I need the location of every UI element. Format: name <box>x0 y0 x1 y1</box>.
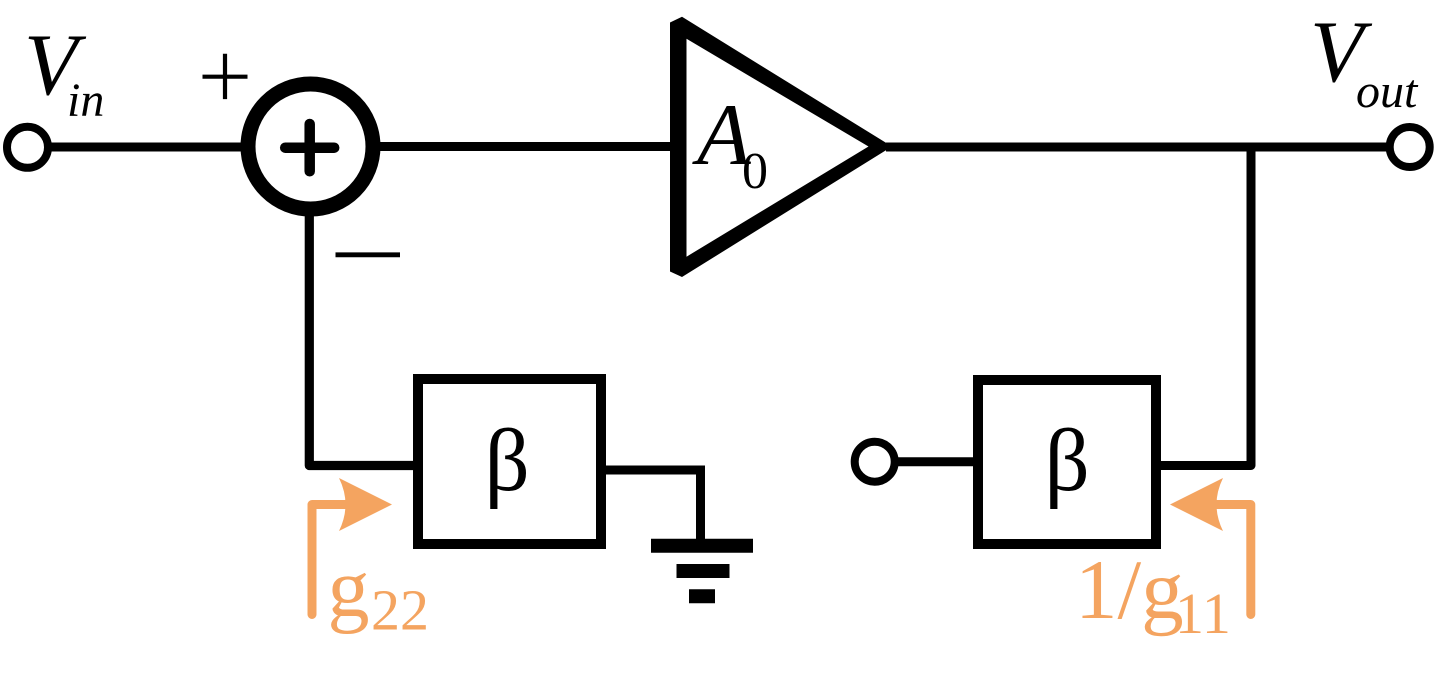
plus inside summing junction <box>285 124 334 171</box>
svg-text:in: in <box>67 74 104 127</box>
wire: left beta box to ground <box>605 470 701 541</box>
svg-text:1/g: 1/g <box>1075 543 1184 637</box>
svg-text:β: β <box>485 412 530 510</box>
svg-text:β: β <box>1045 412 1090 510</box>
minus sign label below summing junction <box>336 252 401 257</box>
feedback block beta (left) <box>418 379 601 544</box>
wire: summing junction to amplifier <box>373 142 672 151</box>
input terminal of right beta box <box>855 442 895 482</box>
wire: summing junction down and into left beta box <box>309 209 414 466</box>
ground <box>651 546 753 597</box>
svg-text:g: g <box>328 542 370 635</box>
output terminal <box>1390 127 1430 167</box>
op-amp A0 triangle <box>670 17 892 277</box>
wire: input terminal to summing junction <box>45 143 244 152</box>
feedback block beta (right) <box>978 380 1156 544</box>
wire: terminal to right beta box <box>894 457 975 466</box>
svg-text:out: out <box>1356 65 1419 118</box>
wire: right beta box up to output node <box>1160 150 1251 466</box>
wire: amplifier output to output terminal <box>886 143 1392 152</box>
svg-text:22: 22 <box>371 577 429 642</box>
summing junction U1 <box>248 84 373 209</box>
svg-text:11: 11 <box>1175 581 1231 646</box>
orange arrow 1/g11 <box>1214 505 1251 615</box>
plus sign label above summing junction <box>203 54 248 99</box>
svg-text:0: 0 <box>742 143 768 200</box>
input terminal <box>7 127 48 168</box>
orange arrow g22 <box>312 505 348 615</box>
